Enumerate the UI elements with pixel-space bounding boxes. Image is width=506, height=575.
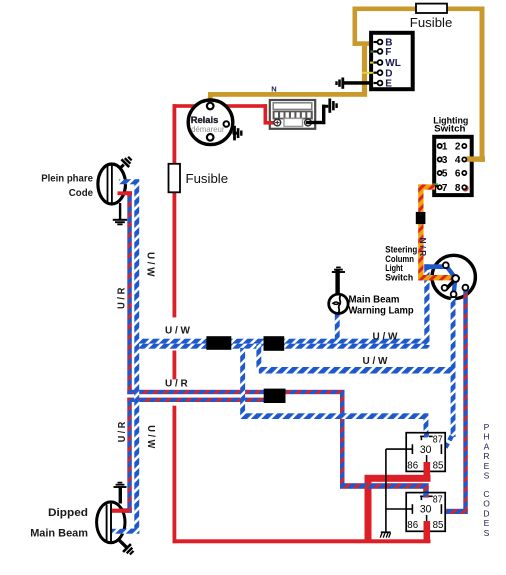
svg-text:U / R: U / R [165, 379, 189, 390]
svg-text:Switch: Switch [385, 273, 413, 283]
svg-text:7: 7 [442, 183, 448, 194]
svg-text:A: A [484, 441, 490, 451]
svg-text:3: 3 [442, 155, 448, 166]
svg-text:Code: Code [69, 188, 93, 199]
svg-text:U / R: U / R [117, 421, 128, 442]
svg-text:86: 86 [407, 459, 418, 471]
svg-text:8: 8 [455, 183, 461, 194]
svg-text:Plein phare: Plein phare [41, 174, 93, 185]
svg-text:Warning Lamp: Warning Lamp [349, 306, 414, 317]
svg-text:U / W: U / W [165, 326, 191, 337]
svg-text:Relais: Relais [191, 114, 219, 125]
svg-text:2: 2 [455, 142, 461, 153]
svg-text:U / W: U / W [145, 425, 156, 449]
svg-text:U / R: U / R [117, 287, 128, 309]
svg-text:E: E [484, 518, 490, 528]
svg-text:U / W: U / W [373, 331, 399, 342]
svg-text:1: 1 [442, 142, 448, 153]
svg-text:U / W: U / W [363, 356, 389, 367]
svg-text:D: D [483, 508, 489, 518]
svg-text:5: 5 [442, 169, 448, 180]
svg-text:30: 30 [420, 444, 432, 456]
svg-text:85: 85 [433, 519, 444, 531]
svg-text:Fusible: Fusible [186, 171, 229, 186]
svg-text:démareur: démareur [191, 125, 225, 134]
svg-text:86: 86 [407, 519, 418, 531]
svg-text:Dipped: Dipped [48, 507, 88, 519]
svg-text:87: 87 [433, 434, 443, 446]
svg-text:H: H [483, 432, 489, 442]
svg-text:E: E [385, 79, 392, 90]
svg-text:Switch: Switch [434, 124, 466, 135]
svg-text:87: 87 [433, 494, 443, 506]
svg-text:4: 4 [455, 155, 461, 166]
svg-text:U / W: U / W [145, 252, 156, 277]
svg-text:F: F [385, 47, 391, 58]
svg-text:O: O [483, 499, 490, 509]
svg-text:N / R: N / R [418, 238, 427, 257]
svg-text:Main Beam: Main Beam [30, 528, 88, 540]
svg-text:Fusible: Fusible [410, 16, 453, 30]
svg-text:E: E [484, 461, 490, 471]
svg-text:Main Beam: Main Beam [349, 294, 400, 305]
svg-text:R: R [483, 451, 489, 461]
svg-text:C: C [483, 489, 489, 499]
svg-text:30: 30 [420, 504, 432, 516]
svg-text:S: S [484, 471, 490, 481]
svg-text:85: 85 [433, 459, 444, 471]
svg-text:S: S [484, 528, 490, 538]
svg-text:N: N [271, 85, 276, 94]
svg-text:P: P [484, 422, 490, 432]
svg-text:6: 6 [455, 169, 461, 180]
